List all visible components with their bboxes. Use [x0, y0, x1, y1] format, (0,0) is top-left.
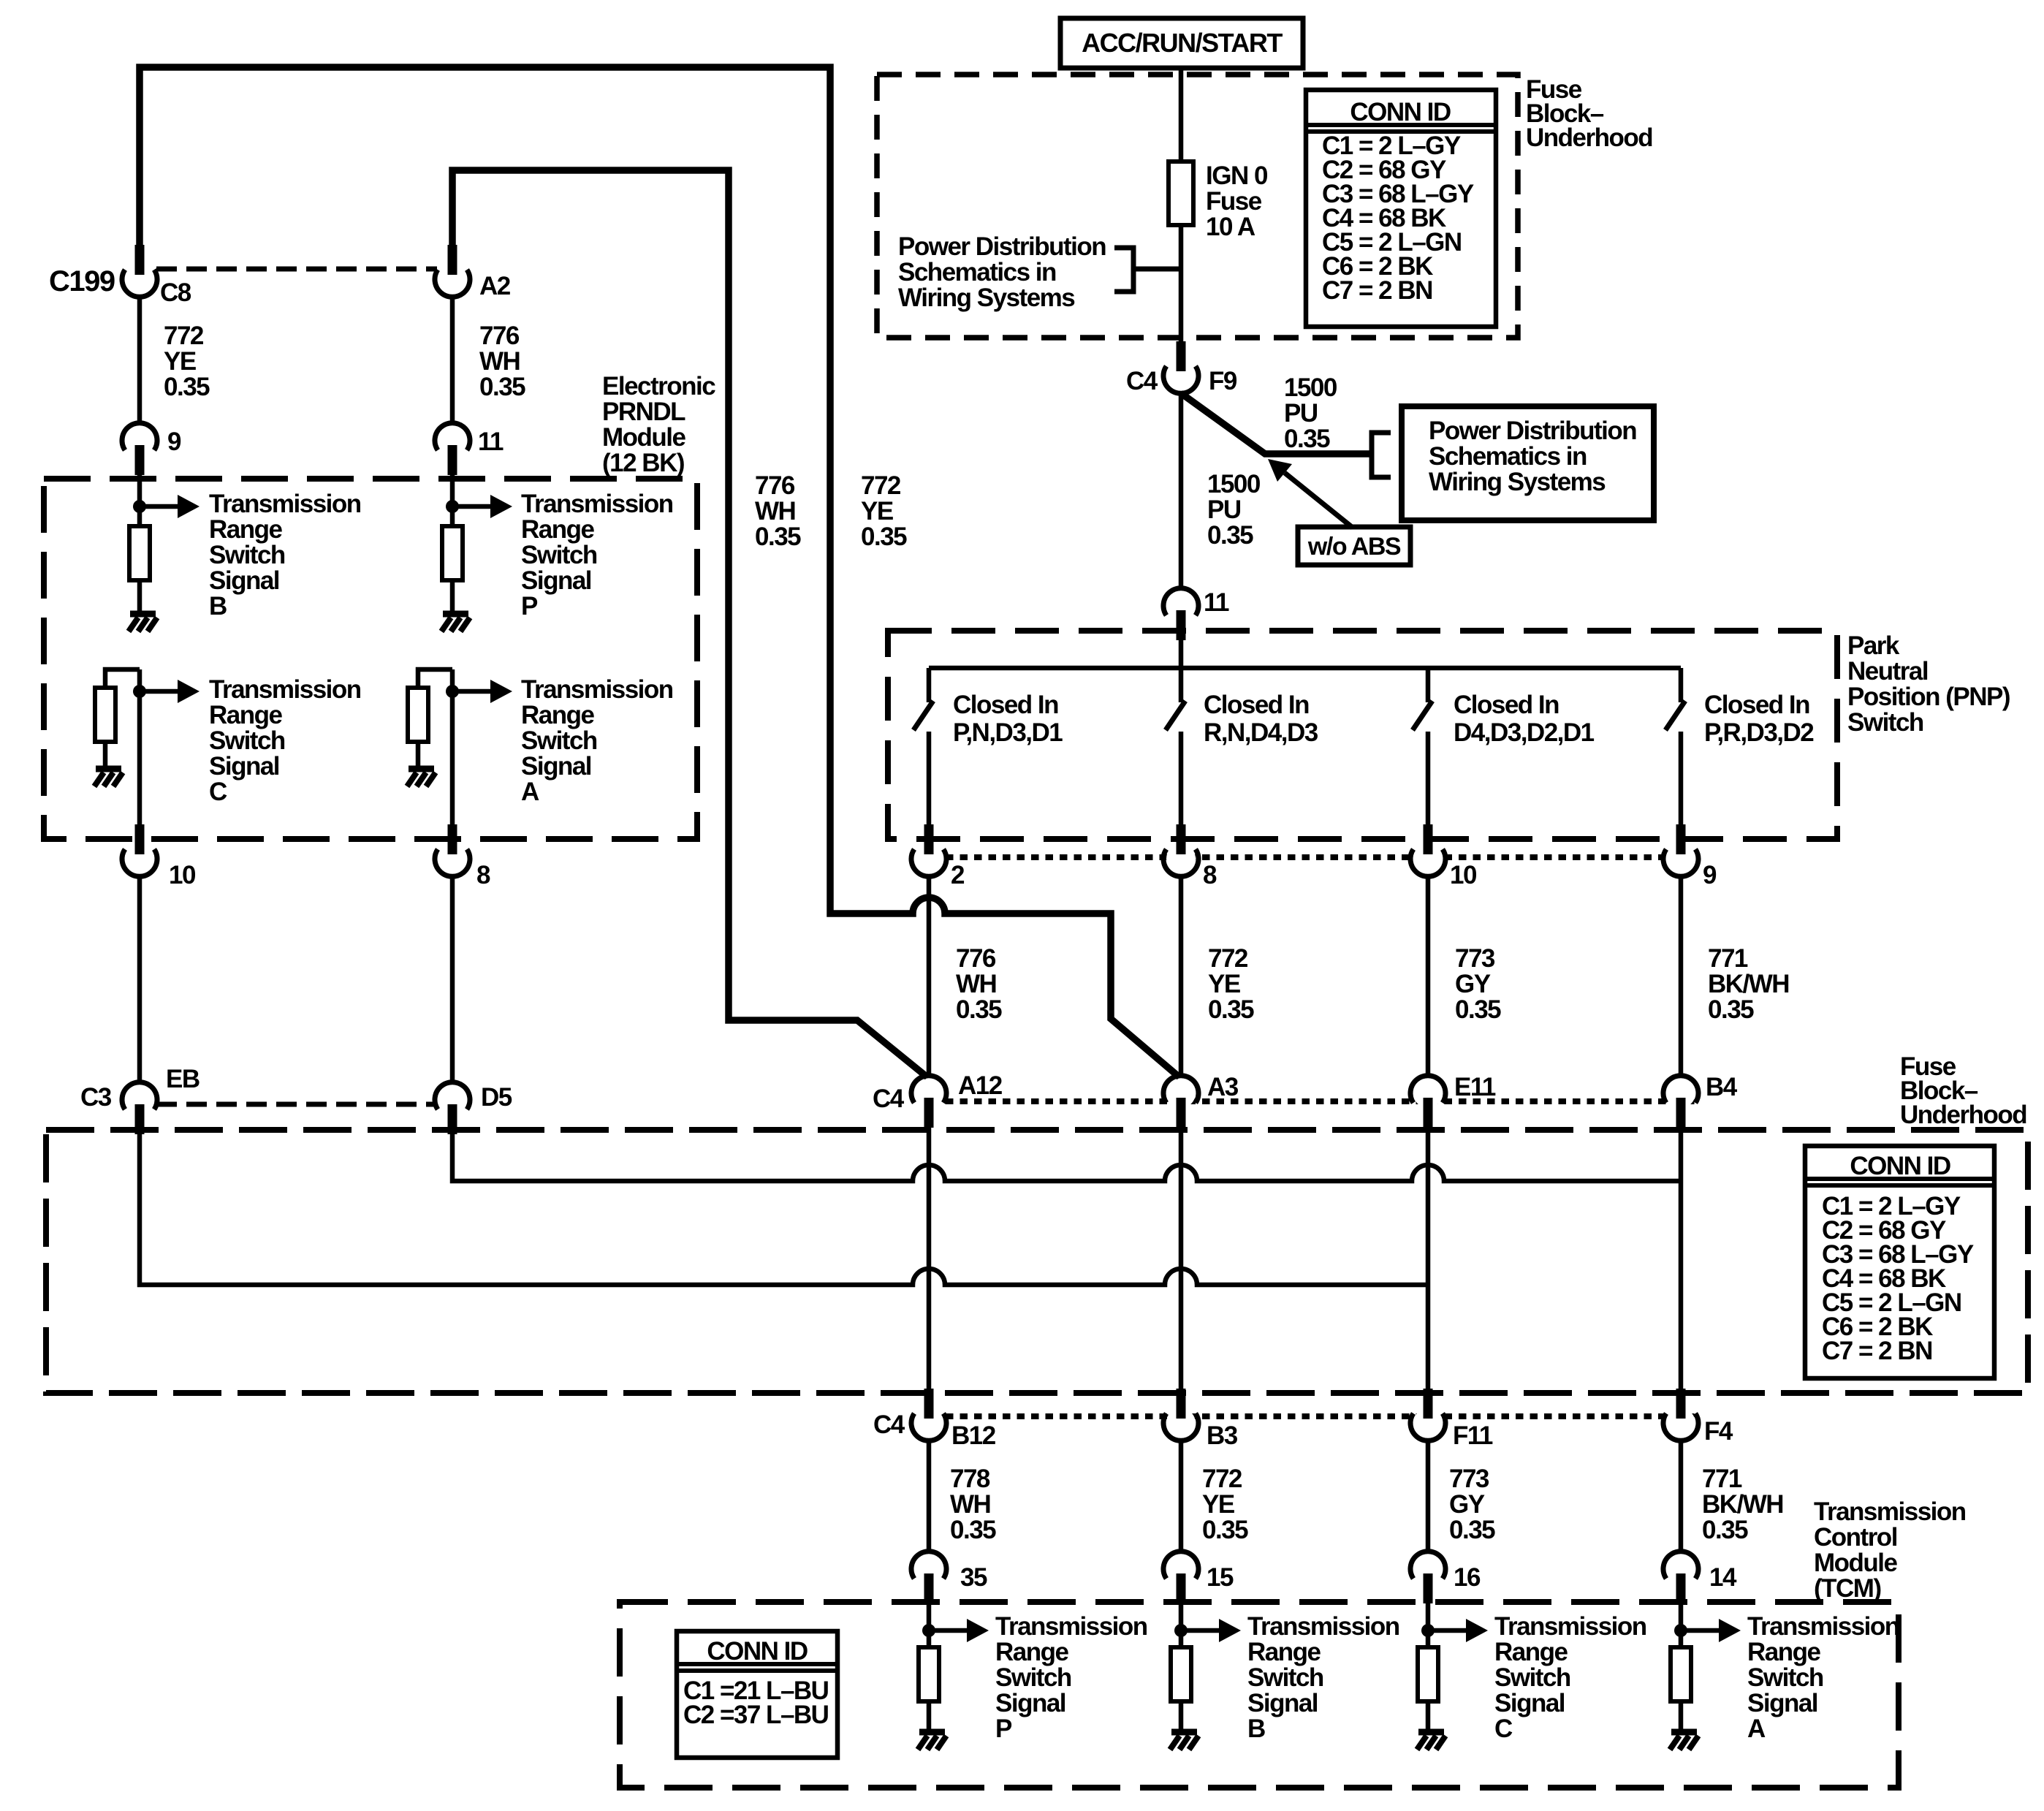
svg-text:(TCM): (TCM)	[1814, 1574, 1881, 1603]
svg-text:C7 = 2 BN: C7 = 2 BN	[1322, 276, 1432, 305]
junction and arrow TCM Transmission Range Switch Signal C	[1421, 1624, 1435, 1637]
svg-text:Transmission: Transmission	[521, 490, 673, 518]
switch blade Closed In P,R,D3,D2	[1665, 701, 1685, 730]
fuse IGN 0 10 A	[1169, 162, 1193, 225]
connector 8 (left)	[438, 844, 467, 873]
svg-text:F9: F9	[1209, 367, 1237, 395]
wire 771 BK/WH F4 to 14	[1679, 1440, 1684, 1552]
dotted line: PNP switch connector row 2-8-10-9	[946, 854, 1700, 860]
connector C4 F9	[1166, 361, 1196, 390]
svg-text:GY: GY	[1455, 970, 1491, 998]
svg-text:Transmission: Transmission	[209, 490, 361, 518]
wire PNP bus drop col 4	[1679, 668, 1684, 702]
svg-text:35: 35	[960, 1563, 987, 1592]
connector 11	[1166, 591, 1196, 620]
svg-text:Transmission: Transmission	[995, 1612, 1147, 1641]
connector F11	[1413, 1408, 1443, 1438]
svg-text:BK/WH: BK/WH	[1708, 970, 1789, 998]
ground TCM signal C	[1418, 1729, 1444, 1736]
junction and arrow TCM Transmission Range Switch Signal A	[1674, 1624, 1687, 1637]
dotted line: C4 connector row B12-B3-F11-F4	[946, 1413, 1699, 1419]
svg-text:C: C	[209, 778, 227, 806]
svg-text:WH: WH	[950, 1490, 990, 1519]
svg-text:Signal: Signal	[1747, 1689, 1817, 1717]
connector 9 (PRNDL)	[125, 426, 154, 455]
svg-text:C3: C3	[80, 1083, 112, 1112]
svg-text:771: 771	[1702, 1465, 1742, 1493]
svg-text:A2: A2	[479, 272, 511, 300]
svg-text:Closed In: Closed In	[1704, 691, 1809, 719]
box w/o ABS	[1298, 527, 1410, 565]
connector B4	[1666, 1079, 1695, 1108]
wire resistor C to ground	[103, 742, 108, 766]
wire resistor P to ground	[450, 580, 455, 611]
svg-text:B3: B3	[1207, 1421, 1238, 1450]
svg-text:PRNDL: PRNDL	[602, 398, 685, 426]
svg-text:Range: Range	[209, 701, 283, 729]
svg-text:11: 11	[478, 428, 504, 456]
wire TCM resistor P to ground	[927, 1701, 932, 1729]
svg-text:WH: WH	[755, 497, 795, 525]
wire fuse to connector C4 F9	[1179, 225, 1184, 342]
svg-text:Signal: Signal	[209, 566, 279, 595]
wire B into TCM	[1179, 1603, 1184, 1647]
svg-text:773: 773	[1455, 944, 1495, 973]
wire 10 column (PRNDL)	[137, 669, 143, 824]
bracket at Power Distribution box (right)	[1372, 433, 1391, 477]
wire EB to F11 inside fuse block	[140, 1134, 1428, 1285]
box CONN ID table (top)	[1306, 90, 1496, 327]
resistor signal B	[129, 526, 150, 580]
svg-text:10: 10	[1450, 861, 1477, 889]
svg-text:R,N,D4,D3: R,N,D4,D3	[1204, 718, 1318, 747]
svg-text:Range: Range	[995, 1638, 1069, 1666]
svg-text:771: 771	[1708, 944, 1748, 973]
wire B4 to F4 inside fuse block	[1679, 1128, 1684, 1389]
svg-text:772: 772	[1208, 944, 1248, 973]
svg-text:YE: YE	[1208, 970, 1240, 998]
resistor TCM signal B	[1171, 1647, 1191, 1701]
ground signal A	[409, 766, 434, 772]
wire 771 BK/WH col to B4	[1679, 876, 1684, 1076]
svg-text:9: 9	[1703, 861, 1717, 889]
svg-text:Park: Park	[1847, 631, 1900, 660]
svg-text:Switch: Switch	[1747, 1663, 1823, 1692]
wire 772 YE col to A3	[1179, 876, 1184, 1076]
connector C3 EB	[125, 1085, 154, 1115]
svg-text:PU: PU	[1284, 399, 1318, 428]
connector 11 (PRNDL)	[438, 426, 467, 455]
junction and arrow Transmission Range Switch Signal B	[133, 500, 146, 513]
connector 10 (left)	[125, 844, 154, 873]
box CONN ID table (right)	[1805, 1146, 1994, 1378]
svg-text:Range: Range	[1747, 1638, 1821, 1666]
svg-text:776: 776	[755, 471, 795, 500]
ground TCM signal A	[1671, 1729, 1697, 1736]
dashed line: C199 connector row C8-A2	[156, 267, 437, 272]
connector 15	[1166, 1554, 1196, 1584]
ground signal B	[130, 611, 156, 618]
junction and arrow TCM Transmission Range Switch Signal P	[922, 1624, 935, 1637]
box Power Distribution Schematics (right)	[1402, 406, 1654, 520]
box CONN ID table (TCM)	[677, 1631, 837, 1758]
svg-text:C199: C199	[49, 265, 115, 297]
svg-text:778: 778	[950, 1465, 990, 1493]
svg-text:Fuse: Fuse	[1206, 187, 1262, 216]
svg-text:Transmission: Transmission	[1814, 1497, 1966, 1526]
svg-text:0.35: 0.35	[950, 1516, 996, 1544]
svg-text:1500: 1500	[1207, 470, 1261, 498]
wire A3 to B3 inside fuse block	[1179, 1128, 1184, 1389]
wire TCM resistor B to ground	[1179, 1701, 1184, 1729]
svg-text:Switch: Switch	[209, 541, 285, 569]
svg-text:Underhood: Underhood	[1526, 124, 1652, 152]
switch blade Closed In D4,D3,D2,D1	[1413, 701, 1432, 730]
svg-text:0.35: 0.35	[479, 373, 525, 401]
svg-text:Schematics in: Schematics in	[1429, 442, 1587, 471]
svg-text:PU: PU	[1207, 496, 1241, 524]
svg-text:Closed In: Closed In	[1204, 691, 1309, 719]
wire jog signal C	[105, 669, 140, 688]
svg-text:Transmission: Transmission	[209, 675, 361, 704]
svg-text:P: P	[521, 592, 538, 620]
svg-text:772: 772	[1202, 1465, 1242, 1493]
svg-text:14: 14	[1709, 1563, 1737, 1592]
box ACC/RUN/START	[1060, 18, 1303, 68]
svg-text:0.35: 0.35	[1202, 1516, 1248, 1544]
svg-text:Module: Module	[602, 423, 686, 452]
svg-text:BK/WH: BK/WH	[1702, 1490, 1783, 1519]
svg-text:0.35: 0.35	[1455, 995, 1501, 1024]
junction and arrow Transmission Range Switch Signal A	[446, 685, 459, 698]
dashed box: Park Neutral Position (PNP) Switch	[888, 631, 1837, 839]
svg-text:P,R,D3,D2: P,R,D3,D2	[1704, 718, 1814, 747]
wire PNP bus drop col 1	[927, 668, 932, 702]
svg-text:Switch: Switch	[1247, 1663, 1323, 1692]
svg-text:A3: A3	[1207, 1073, 1239, 1101]
connector 10 (PNP)	[1413, 844, 1443, 873]
wire C into TCM	[1426, 1603, 1431, 1647]
svg-text:Switch: Switch	[1494, 1663, 1570, 1692]
junction and arrow Transmission Range Switch Signal C	[133, 685, 146, 698]
resistor TCM signal A	[1671, 1647, 1691, 1701]
svg-text:B: B	[1247, 1715, 1265, 1743]
svg-text:2: 2	[951, 861, 965, 889]
svg-text:Range: Range	[1494, 1638, 1568, 1666]
wire branch 1500 PU to Power Distribution box	[1181, 393, 1372, 454]
ground TCM signal P	[919, 1729, 945, 1736]
connector F4	[1666, 1408, 1695, 1438]
svg-text:CONN ID: CONN ID	[707, 1637, 808, 1666]
svg-text:YE: YE	[164, 347, 196, 376]
svg-text:11: 11	[1204, 588, 1229, 617]
svg-text:0.35: 0.35	[164, 373, 210, 401]
svg-text:Switch: Switch	[1847, 708, 1923, 737]
svg-text:Transmission: Transmission	[521, 675, 673, 704]
svg-text:Power Distribution: Power Distribution	[898, 232, 1106, 261]
wire resistor B to ground	[137, 580, 143, 611]
junction and arrow Transmission Range Switch Signal P	[446, 500, 459, 513]
switch blade Closed In R,N,D4,D3	[1166, 701, 1185, 730]
ground signal C	[96, 766, 121, 772]
svg-text:772: 772	[861, 471, 901, 500]
svg-text:ACC/RUN/START: ACC/RUN/START	[1082, 28, 1283, 58]
svg-text:0.35: 0.35	[1449, 1516, 1495, 1544]
svg-text:P: P	[995, 1715, 1012, 1743]
svg-text:(12 BK): (12 BK)	[602, 449, 684, 477]
svg-text:Transmission: Transmission	[1494, 1612, 1646, 1641]
svg-text:Range: Range	[521, 701, 595, 729]
svg-text:Schematics in: Schematics in	[898, 258, 1056, 286]
connector A3	[1166, 1079, 1196, 1108]
svg-text:1500: 1500	[1284, 373, 1337, 402]
svg-text:16: 16	[1454, 1563, 1481, 1592]
svg-text:Wiring Systems: Wiring Systems	[1429, 468, 1606, 496]
svg-text:0.35: 0.35	[1207, 521, 1253, 550]
svg-text:Signal: Signal	[1494, 1689, 1565, 1717]
svg-text:WH: WH	[956, 970, 996, 998]
svg-text:A: A	[521, 778, 539, 806]
svg-text:D5: D5	[481, 1083, 512, 1112]
svg-text:E11: E11	[1454, 1073, 1496, 1101]
wire jog signal A	[418, 669, 452, 688]
svg-text:776: 776	[479, 322, 520, 350]
resistor TCM signal C	[1418, 1647, 1438, 1701]
svg-text:0.35: 0.35	[755, 523, 801, 551]
connector C199 C8	[125, 265, 154, 294]
svg-text:Switch: Switch	[209, 726, 285, 755]
svg-text:Switch: Switch	[521, 726, 597, 755]
svg-text:772: 772	[164, 322, 204, 350]
svg-text:F11: F11	[1453, 1421, 1493, 1450]
svg-text:C4: C4	[1126, 367, 1158, 395]
connector 16	[1413, 1554, 1443, 1584]
arrow from w/o ABS to 1500 PU wire	[1285, 473, 1353, 528]
wire F9 to connector 11	[1179, 393, 1184, 588]
dashed box: Transmission Control Module (TCM)	[620, 1602, 1899, 1788]
wire C8 to 9	[137, 297, 143, 423]
svg-text:Transmission: Transmission	[1247, 1612, 1399, 1641]
junction and arrow TCM Transmission Range Switch Signal B	[1174, 1624, 1188, 1637]
resistor signal C	[95, 688, 115, 742]
wire 10 to EB	[137, 876, 143, 1082]
svg-text:Module: Module	[1814, 1549, 1898, 1577]
connector 9 (PNP)	[1666, 844, 1695, 873]
svg-text:0.35: 0.35	[1708, 995, 1754, 1024]
connector C4 A12	[914, 1079, 943, 1108]
svg-text:0.35: 0.35	[1284, 425, 1330, 453]
dashed line: C3 connector row EB-D5	[156, 1102, 436, 1107]
svg-text:Closed In: Closed In	[953, 691, 1058, 719]
bracket to Power Distribution Schematics note (left)	[1114, 248, 1133, 292]
connector D5	[438, 1085, 467, 1115]
svg-text:D4,D3,D2,D1: D4,D3,D2,D1	[1454, 718, 1595, 747]
svg-text:10: 10	[169, 861, 196, 889]
svg-text:C: C	[1494, 1715, 1513, 1743]
svg-text:Signal: Signal	[995, 1689, 1065, 1717]
svg-text:Signal: Signal	[1247, 1689, 1318, 1717]
svg-text:0.35: 0.35	[1702, 1516, 1748, 1544]
svg-text:Range: Range	[209, 515, 283, 544]
svg-text:0.35: 0.35	[861, 523, 907, 551]
svg-text:C4: C4	[873, 1411, 905, 1439]
svg-text:8: 8	[1203, 861, 1217, 889]
wire 772 YE B3 to 15	[1179, 1440, 1184, 1552]
svg-text:B12: B12	[951, 1421, 996, 1450]
wire 9 to signal B resistor	[137, 475, 143, 526]
wire 773 GY col to E11	[1426, 876, 1431, 1076]
svg-text:Position (PNP): Position (PNP)	[1847, 683, 2010, 711]
svg-text:10 A: 10 A	[1206, 213, 1255, 241]
wire TCM resistor A to ground	[1679, 1701, 1684, 1729]
svg-text:A12: A12	[958, 1071, 1003, 1100]
svg-text:Transmission: Transmission	[1747, 1612, 1899, 1641]
connector 2	[914, 844, 943, 873]
wire 8 to D5	[450, 876, 455, 1082]
svg-text:0.35: 0.35	[1208, 995, 1254, 1024]
svg-text:GY: GY	[1449, 1490, 1485, 1519]
wire PNP bus	[929, 666, 1681, 671]
ground signal P	[443, 611, 468, 618]
resistor signal A	[408, 688, 428, 742]
svg-text:Switch: Switch	[521, 541, 597, 569]
svg-text:Power Distribution: Power Distribution	[1429, 417, 1636, 445]
svg-text:Range: Range	[1247, 1638, 1321, 1666]
wire A into TCM	[1679, 1603, 1684, 1647]
connector 14	[1666, 1554, 1695, 1584]
connector 8 (PNP)	[1166, 844, 1196, 873]
resistor signal P	[442, 526, 463, 580]
svg-text:C8: C8	[160, 278, 191, 307]
wire TCM resistor C to ground	[1426, 1701, 1431, 1729]
dotted line: C4 connector row A12-A3-E11-B4	[946, 1098, 1700, 1104]
svg-text:15: 15	[1207, 1563, 1234, 1592]
svg-text:Control: Control	[1814, 1523, 1897, 1552]
svg-text:YE: YE	[861, 497, 893, 525]
svg-text:Range: Range	[521, 515, 595, 544]
svg-text:773: 773	[1449, 1465, 1489, 1493]
svg-text:Switch: Switch	[995, 1663, 1071, 1692]
svg-text:w/o ABS: w/o ABS	[1307, 533, 1401, 561]
svg-text:F4: F4	[1704, 1417, 1733, 1446]
svg-text:8: 8	[476, 861, 490, 889]
svg-text:Signal: Signal	[521, 566, 591, 595]
wire 773 GY F11 to 16	[1426, 1440, 1431, 1552]
svg-text:A: A	[1747, 1715, 1766, 1743]
wire P into TCM	[927, 1603, 932, 1647]
connector C4 B12	[914, 1408, 943, 1438]
wire PNP bus drop col 3	[1426, 668, 1431, 702]
wire connector 11 into PNP switch	[1179, 640, 1184, 702]
wire 778 WH B12 to 35	[927, 1440, 932, 1552]
dashed box: Fuse Block-Underhood (main)	[46, 1130, 2028, 1393]
connector 35	[914, 1554, 943, 1584]
svg-text:C4: C4	[873, 1085, 905, 1113]
switch blade Closed In P,N,D3,D1	[913, 701, 933, 730]
svg-text:CONN ID: CONN ID	[1350, 98, 1451, 126]
wire resistor A to ground	[416, 742, 421, 766]
svg-text:776: 776	[956, 944, 996, 973]
wire 776 WH col to A12	[927, 876, 932, 1076]
wire 11 to signal P resistor	[450, 475, 455, 526]
svg-text:YE: YE	[1202, 1490, 1234, 1519]
resistor TCM signal P	[919, 1647, 939, 1701]
svg-text:0.35: 0.35	[956, 995, 1002, 1024]
svg-text:9: 9	[167, 428, 181, 456]
wire 772 YE from C199 C8 up over and down to A3	[140, 67, 1179, 1077]
svg-text:Neutral: Neutral	[1847, 657, 1928, 686]
svg-text:CONN ID: CONN ID	[1850, 1152, 1950, 1180]
dashed box: Fuse Block-Underhood (top)	[877, 75, 1518, 338]
svg-text:C7 = 2 BN: C7 = 2 BN	[1822, 1337, 1932, 1365]
svg-text:B4: B4	[1706, 1073, 1738, 1101]
wire A2 to 11 (PRNDL)	[450, 297, 455, 423]
wire ACC/RUN/START to fuse	[1179, 68, 1184, 162]
connector A2	[438, 265, 467, 294]
svg-text:B: B	[209, 592, 227, 620]
connector B3	[1166, 1408, 1196, 1438]
svg-text:Signal: Signal	[209, 752, 279, 781]
wire A12 to B12 inside fuse block	[927, 1128, 932, 1389]
wire 776 WH from A2 up over and down to A12	[452, 170, 927, 1077]
svg-text:Wiring Systems: Wiring Systems	[898, 284, 1075, 312]
wire E11 to F11 inside fuse block	[1426, 1128, 1431, 1389]
svg-text:Electronic: Electronic	[602, 372, 715, 400]
svg-text:Closed In: Closed In	[1454, 691, 1559, 719]
svg-text:P,N,D3,D1: P,N,D3,D1	[953, 718, 1063, 747]
svg-text:Signal: Signal	[521, 752, 591, 781]
svg-text:C2 =37 L–BU: C2 =37 L–BU	[683, 1701, 829, 1729]
ground TCM signal B	[1171, 1729, 1197, 1736]
connector E11	[1413, 1079, 1443, 1108]
svg-text:Underhood: Underhood	[1900, 1101, 2026, 1129]
dashed box: Electronic PRNDL Module	[44, 479, 697, 839]
wire 8 column (PRNDL)	[450, 669, 455, 824]
svg-text:EB: EB	[166, 1065, 200, 1093]
svg-text:WH: WH	[479, 347, 520, 376]
wire D5 to F4 inside fuse block	[452, 1134, 1681, 1181]
svg-text:IGN 0: IGN 0	[1206, 162, 1268, 190]
